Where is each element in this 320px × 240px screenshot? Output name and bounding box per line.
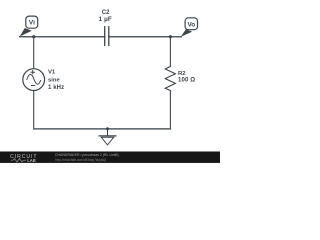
svg-text:sine: sine	[48, 77, 61, 83]
svg-text:1 kHz: 1 kHz	[48, 85, 64, 91]
svg-text:Vo: Vo	[187, 21, 195, 28]
svg-text:C2: C2	[102, 10, 110, 16]
svg-text:Vi: Vi	[29, 20, 35, 27]
svg-text:http://circuitlab.com/c93dqv7d: http://circuitlab.com/c93dqv7dcy6q2	[56, 158, 107, 162]
svg-text:CHANDRAKER / percobaan 2 (RL U: CHANDRAKER / percobaan 2 (RL Unit5)	[55, 153, 119, 157]
svg-text:V1: V1	[48, 69, 56, 75]
svg-text:LAB: LAB	[27, 158, 36, 163]
svg-text:100 Ω: 100 Ω	[178, 77, 195, 84]
svg-text:1 µF: 1 µF	[98, 16, 112, 23]
